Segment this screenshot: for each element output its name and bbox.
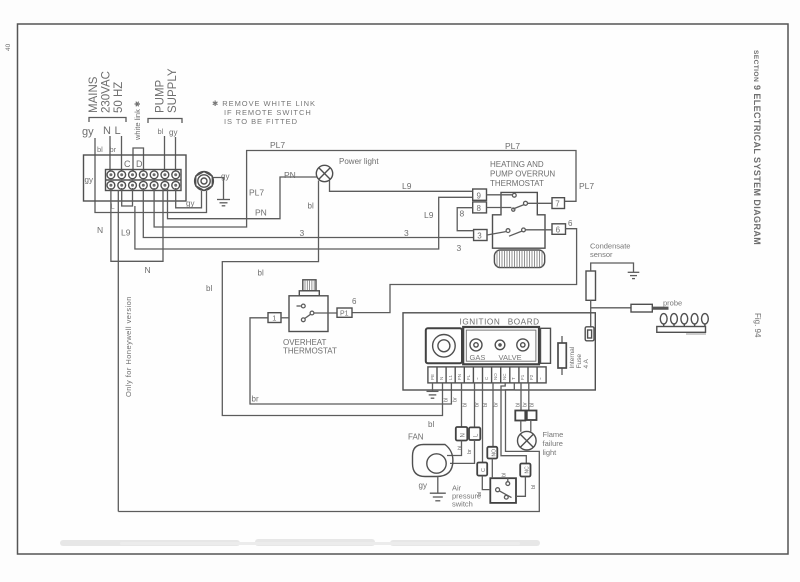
svg-text:PL7: PL7 xyxy=(579,181,594,191)
svg-text:F2: F2 xyxy=(529,374,534,380)
wire fan to ground xyxy=(437,477,439,494)
flame failure light xyxy=(518,431,537,450)
wire L9 honeywell drop xyxy=(117,190,119,512)
terminal labels gy N L bl gy xyxy=(82,125,177,169)
svg-text:IGNITION BOARD: IGNITION BOARD xyxy=(460,318,540,327)
wire N mains drop xyxy=(109,136,111,171)
board terminal 1 earth xyxy=(432,383,434,391)
thermostat body xyxy=(493,192,546,248)
wire PN from terminal 6 to power light xyxy=(168,177,317,219)
wire board t8 to NO terminal xyxy=(492,383,494,447)
svg-text:P1: P1 xyxy=(340,310,349,317)
fan terminal L xyxy=(469,427,480,440)
wire NO terminal into switch xyxy=(491,459,493,479)
thermostat upper switch xyxy=(487,193,553,211)
ground symbol at stud xyxy=(217,200,230,206)
svg-text:N: N xyxy=(103,125,111,137)
svg-text:3: 3 xyxy=(457,243,462,253)
burner bar xyxy=(657,327,706,333)
wire L box to fan xyxy=(450,440,475,463)
thermostat terminal 8 xyxy=(473,202,487,213)
wire board t4 to fan N xyxy=(461,383,463,427)
wire sensor to ground xyxy=(591,263,634,272)
svg-text:NO: NO xyxy=(492,449,498,457)
internal fuse F1 xyxy=(558,336,590,375)
svg-text:probe: probe xyxy=(663,299,682,308)
svg-text:NC: NC xyxy=(525,466,531,474)
svg-text:bl: bl xyxy=(530,403,536,407)
svg-text:Fuse: Fuse xyxy=(576,354,583,369)
board terminal row xyxy=(428,367,546,383)
svg-text:L9: L9 xyxy=(402,181,412,191)
svg-text:br: br xyxy=(494,402,500,407)
fan terminal N xyxy=(456,427,468,441)
svg-text:gy: gy xyxy=(85,176,93,185)
svg-text:FAN: FAN xyxy=(408,433,424,442)
wire 3 from terminal 4 to thermostat 3 xyxy=(143,188,473,238)
wire L9 return loop from board t10 xyxy=(118,383,539,512)
air switch contacts xyxy=(496,478,512,499)
wire 6 to overheat thermostat via P1 xyxy=(352,229,577,313)
ground symbol board xyxy=(427,391,439,398)
svg-text:NO: NO xyxy=(493,373,498,380)
svg-text:C: C xyxy=(124,159,131,169)
label PUMP SUPPLY xyxy=(148,68,182,123)
power light PL xyxy=(316,165,332,181)
svg-text:✱ REMOVE WHITE LINK: ✱ REMOVE WHITE LINK xyxy=(212,99,316,108)
wire br from overheat 1 to board terminal 3 xyxy=(250,318,451,404)
svg-text:PN: PN xyxy=(255,208,267,218)
wire board t9 to NC terminal xyxy=(501,383,526,464)
wires terminals to flame light xyxy=(521,420,531,432)
wire pump gy to earth stud xyxy=(176,188,202,208)
svg-text:1: 1 xyxy=(272,313,276,322)
svg-text:gy: gy xyxy=(186,199,194,208)
thermostat terminal 6 xyxy=(552,224,566,235)
svg-text:N: N xyxy=(461,433,467,437)
wire stud to ground xyxy=(213,178,224,200)
overheat knob xyxy=(299,280,319,296)
gas valve unit xyxy=(463,327,539,364)
svg-text:Power light: Power light xyxy=(339,157,379,166)
svg-text:gy: gy xyxy=(419,481,427,490)
svg-text:6: 6 xyxy=(556,226,561,235)
svg-text:bl: bl xyxy=(428,420,434,429)
condensate sensor xyxy=(586,271,596,300)
label MAINS 230VAC 50 HZ xyxy=(88,71,126,122)
fan M1 xyxy=(408,433,453,477)
svg-text:br: br xyxy=(523,402,529,407)
terminal NC xyxy=(520,464,530,477)
probe connector xyxy=(631,304,652,312)
svg-text:br: br xyxy=(252,395,259,404)
svg-text:T: T xyxy=(511,377,516,380)
svg-text:3: 3 xyxy=(404,228,409,238)
flame light terminal b xyxy=(527,411,537,421)
svg-text:50 HZ: 50 HZ xyxy=(113,82,125,113)
thermostat terminal 3 xyxy=(474,230,487,241)
wire overheat 1 input xyxy=(281,317,289,319)
svg-text:THERMOSTAT: THERMOSTAT xyxy=(283,347,337,356)
svg-text:7: 7 xyxy=(555,200,560,209)
svg-text:THERMOSTAT: THERMOSTAT xyxy=(490,179,544,188)
svg-text:GAS: GAS xyxy=(470,353,486,362)
svg-text:switch: switch xyxy=(452,500,473,509)
white link bracket xyxy=(133,148,144,171)
spark generator U2 xyxy=(426,328,462,363)
svg-text:PE: PE xyxy=(430,374,435,380)
svg-text:MAINS: MAINS xyxy=(88,76,100,113)
wire NC terminal into switch xyxy=(516,477,525,497)
wire L mains drop xyxy=(121,136,123,171)
wire board t7 to C terminal xyxy=(482,383,484,463)
svg-text:failure: failure xyxy=(543,439,563,448)
svg-text:br: br xyxy=(475,402,481,407)
wire PL7 from terminal 5 xyxy=(154,151,576,228)
wire L9 to thermostat terminal 9 xyxy=(135,197,473,249)
svg-text:br: br xyxy=(453,397,459,402)
wire flame light feeds t11 t12 xyxy=(521,383,529,411)
thermostat knob xyxy=(494,250,544,268)
svg-text:Internal: Internal xyxy=(569,346,576,368)
overheat switch xyxy=(297,304,338,322)
wire gy mains drop to earth stud xyxy=(95,138,207,213)
terminal P1 xyxy=(337,308,352,317)
svg-text:bl: bl xyxy=(308,202,314,211)
svg-text:F1: F1 xyxy=(520,374,525,380)
svg-text:N: N xyxy=(145,265,151,275)
svg-text:bl: bl xyxy=(258,269,264,278)
wire bl neutral from power light to board terminal 2 xyxy=(222,181,442,416)
wire labels under board xyxy=(444,397,536,407)
svg-text:PUMP: PUMP xyxy=(155,79,167,113)
svg-text:L9: L9 xyxy=(424,210,434,220)
svg-text:Fig. 94: Fig. 94 xyxy=(753,313,762,338)
wire N box to fan xyxy=(447,441,462,456)
wire C terminal into switch xyxy=(482,476,490,490)
link 8 to 3 xyxy=(457,208,473,231)
svg-text:bl: bl xyxy=(458,446,464,450)
wire sensor to probe junction xyxy=(591,300,631,327)
svg-text:VALVE: VALVE xyxy=(499,353,522,362)
svg-text:N: N xyxy=(439,377,444,380)
svg-text:Flame: Flame xyxy=(543,430,564,439)
svg-text:light: light xyxy=(543,448,558,457)
wire N loop terminals 1-6 xyxy=(111,188,163,261)
svg-text:3: 3 xyxy=(300,228,305,238)
ground symbol condensate xyxy=(628,272,640,278)
scan smudges bottom xyxy=(60,539,540,546)
svg-text:PL7: PL7 xyxy=(505,141,520,151)
svg-text:gy: gy xyxy=(169,128,177,137)
spark connector on board xyxy=(585,327,594,341)
svg-text:40: 40 xyxy=(5,43,12,51)
svg-text:8: 8 xyxy=(477,204,482,213)
svg-text:gy: gy xyxy=(221,172,229,181)
svg-text:Only for Honeywell version: Only for Honeywell version xyxy=(124,296,133,397)
thermostat lower switch xyxy=(487,228,552,236)
board edge connector xyxy=(541,328,551,363)
svg-text:8: 8 xyxy=(460,209,465,219)
svg-text:sensor: sensor xyxy=(590,250,613,259)
thermostat terminal 9 xyxy=(473,189,487,200)
svg-text:br: br xyxy=(467,449,473,454)
svg-text:6: 6 xyxy=(568,219,573,228)
svg-text:gy: gy xyxy=(82,126,94,138)
svg-text:bl: bl xyxy=(463,403,469,407)
terminal NO xyxy=(487,447,497,459)
svg-text:PUMP OVERRUN: PUMP OVERRUN xyxy=(490,170,555,179)
svg-text:~: ~ xyxy=(538,377,543,380)
terminal screws xyxy=(107,171,180,189)
svg-text:bl: bl xyxy=(502,473,508,477)
wire L9 power light to thermostat 9 xyxy=(330,181,473,192)
svg-text:bl: bl xyxy=(158,127,164,136)
flame light terminal a xyxy=(515,411,525,421)
terminal block outer box xyxy=(84,155,187,201)
svg-text:SUPPLY: SUPPLY xyxy=(167,68,179,113)
svg-text:9: 9 xyxy=(477,191,482,200)
svg-text:bl: bl xyxy=(483,403,489,407)
heating and pump overrun thermostat label xyxy=(490,160,555,188)
svg-text:L9: L9 xyxy=(121,228,131,238)
ignition board box xyxy=(403,313,595,390)
burner flames xyxy=(660,314,708,327)
svg-text:6: 6 xyxy=(352,297,357,306)
svg-text:bl: bl xyxy=(206,284,212,293)
thermostat terminal 7 xyxy=(552,198,565,209)
terminal strip X1 xyxy=(106,170,182,191)
svg-text:D: D xyxy=(136,159,143,169)
wire pump bl drop xyxy=(164,136,166,171)
svg-text:L1: L1 xyxy=(448,374,453,380)
svg-text:~: ~ xyxy=(475,377,480,380)
overheat thermostat box xyxy=(289,296,328,332)
svg-text:FN: FN xyxy=(457,374,462,380)
terminal 1 overheat xyxy=(268,313,281,323)
svg-text:white link ✱: white link ✱ xyxy=(133,100,142,141)
note: remove white link xyxy=(212,99,316,126)
svg-text:HEATING AND: HEATING AND xyxy=(490,160,544,169)
svg-text:IF REMOTE SWITCH: IF REMOTE SWITCH xyxy=(224,108,312,117)
svg-text:4 A: 4 A xyxy=(583,358,590,368)
air pressure switch box xyxy=(490,478,516,503)
svg-text:bl: bl xyxy=(531,485,537,489)
earth stud xyxy=(195,172,214,191)
wire pump gy drop xyxy=(175,137,177,171)
svg-text:PL7: PL7 xyxy=(270,140,285,150)
svg-text:C: C xyxy=(481,468,487,472)
svg-text:230VAC: 230VAC xyxy=(101,71,113,113)
svg-text:bl: bl xyxy=(97,145,103,154)
svg-text:NC: NC xyxy=(502,373,507,380)
ground symbol fan xyxy=(430,493,446,501)
svg-text:PN: PN xyxy=(284,170,296,180)
probe tip xyxy=(652,307,668,310)
wire board t6 to fan L xyxy=(474,383,476,428)
svg-text:3: 3 xyxy=(477,232,482,241)
svg-text:N: N xyxy=(97,225,103,235)
svg-text:bl: bl xyxy=(444,398,450,402)
link L terminals 2-3 xyxy=(122,188,133,206)
svg-text:IS TO BE FITTED: IS TO BE FITTED xyxy=(224,117,298,126)
svg-text:FL: FL xyxy=(466,374,471,380)
svg-text:L: L xyxy=(115,125,121,137)
terminal C xyxy=(477,463,487,476)
svg-text:PL7: PL7 xyxy=(249,188,264,198)
